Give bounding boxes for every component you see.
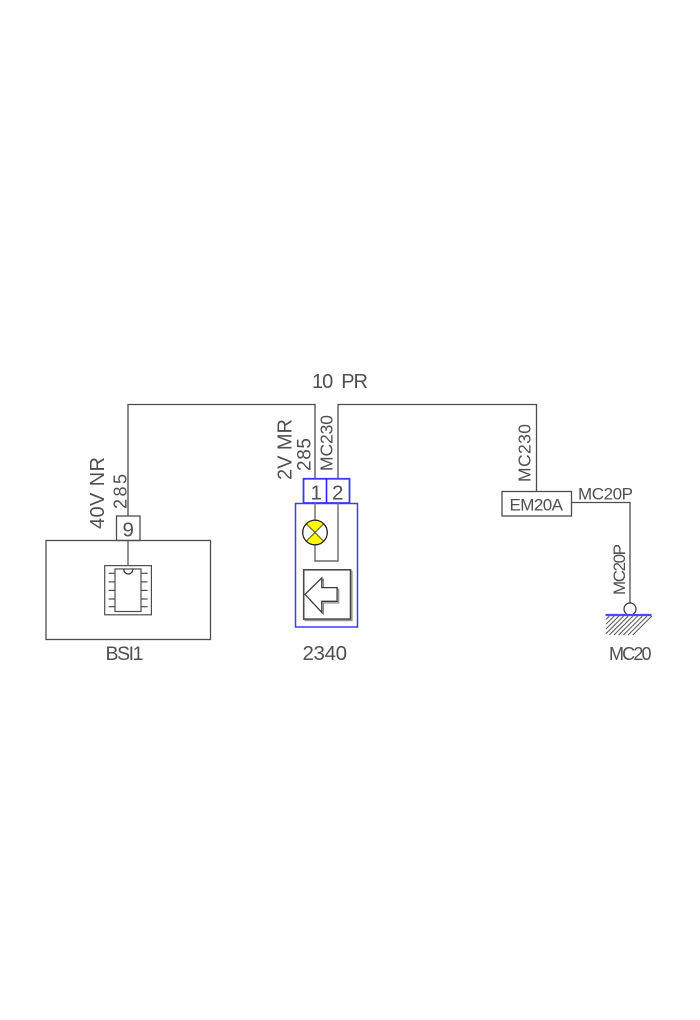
- ground connection circle: [624, 603, 636, 615]
- svg-text:40V NR: 40V NR: [87, 457, 109, 529]
- ECU BSI1 box: [46, 541, 211, 640]
- connector pin 9 box: [117, 516, 141, 541]
- ground bar (blue): [606, 614, 652, 616]
- connector pins 1 2 (blue): [304, 479, 350, 503]
- wire EM20A to ground: [572, 503, 631, 604]
- wire pin9 to IC: [127, 541, 129, 567]
- lamp symbol (yellow crossed circle): [303, 520, 328, 545]
- IC pin stubs right: [141, 573, 148, 606]
- splice EM20A box: [502, 492, 572, 517]
- IC notch: [124, 570, 133, 575]
- ground hatch: [606, 616, 652, 635]
- component 2340 outer box (blue): [296, 504, 358, 628]
- svg-text:MC230: MC230: [317, 415, 337, 471]
- wire bus left segment: [128, 405, 315, 517]
- svg-text:2340: 2340: [303, 642, 348, 665]
- direction indicator arrow icon: [305, 578, 339, 614]
- IC symbol outer box: [105, 566, 152, 615]
- direction indicator arrow box: [304, 570, 352, 621]
- internal wire lamp loop: [315, 503, 338, 561]
- svg-text:285: 285: [295, 438, 316, 471]
- svg-text:BSI1: BSI1: [106, 643, 144, 665]
- svg-text:EM20A: EM20A: [510, 496, 564, 515]
- svg-text:MC20P: MC20P: [610, 544, 629, 595]
- svg-text:2: 2: [332, 482, 343, 505]
- svg-text:MC230: MC230: [515, 424, 535, 482]
- svg-text:10 PR: 10 PR: [312, 371, 368, 393]
- svg-text:9: 9: [123, 519, 134, 542]
- connector divider: [326, 479, 328, 503]
- IC pin stubs left: [109, 573, 115, 606]
- wire bus right segment: [338, 405, 537, 492]
- svg-text:1: 1: [311, 482, 322, 505]
- svg-text:MC20: MC20: [609, 644, 652, 664]
- svg-text:MC20P: MC20P: [578, 485, 633, 504]
- svg-text:2V MR: 2V MR: [275, 419, 297, 480]
- svg-text:285: 285: [110, 474, 130, 509]
- IC symbol body: [115, 569, 141, 612]
